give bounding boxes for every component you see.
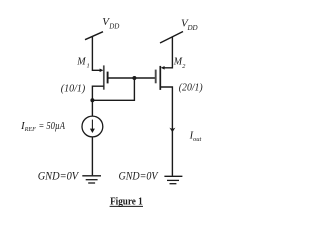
svg-text:(10/1): (10/1) bbox=[61, 84, 86, 95]
transistor M2 bbox=[156, 66, 165, 90]
ground (left) bbox=[82, 176, 101, 183]
wire gate to drain feedback bbox=[92, 78, 134, 100]
power rail VDD (right) bbox=[160, 32, 183, 44]
svg-text:M: M bbox=[76, 57, 86, 68]
wire M2 drain to ground bbox=[160, 87, 172, 176]
current source IREF bbox=[82, 116, 103, 137]
junction gate node bbox=[132, 76, 136, 80]
svg-text:(20/1): (20/1) bbox=[179, 82, 203, 93]
label Iout bbox=[189, 131, 202, 143]
power rail VDD (left) bbox=[85, 32, 103, 40]
label VDD (left) bbox=[102, 16, 119, 30]
caption Figure 1 bbox=[110, 197, 143, 208]
arrow Iout direction bbox=[169, 128, 175, 133]
transistor M1 bbox=[100, 65, 108, 89]
svg-text:DD: DD bbox=[187, 24, 198, 32]
svg-text:REF: REF bbox=[24, 126, 37, 133]
ground (right) bbox=[164, 176, 182, 183]
wire VDD to M2 source bbox=[164, 37, 172, 68]
wire VDD to M1 source bbox=[92, 36, 100, 70]
svg-text:1: 1 bbox=[87, 63, 90, 70]
label M1 bbox=[76, 57, 89, 70]
svg-text:DD: DD bbox=[108, 23, 119, 31]
svg-text:= 50µA: = 50µA bbox=[39, 120, 66, 132]
label VDD (right) bbox=[181, 18, 198, 32]
label M2 bbox=[173, 57, 186, 70]
junction drain node bbox=[90, 98, 94, 102]
svg-text:GND=0V: GND=0V bbox=[119, 169, 159, 183]
wire gate bus M1 to M2 bbox=[109, 77, 156, 79]
wire current source to ground bbox=[91, 137, 93, 175]
svg-text:GND=0V: GND=0V bbox=[38, 169, 80, 183]
label IREF = 50uA bbox=[20, 120, 65, 133]
svg-text:out: out bbox=[193, 136, 202, 143]
wire M1 drain down to current source bbox=[92, 86, 103, 116]
